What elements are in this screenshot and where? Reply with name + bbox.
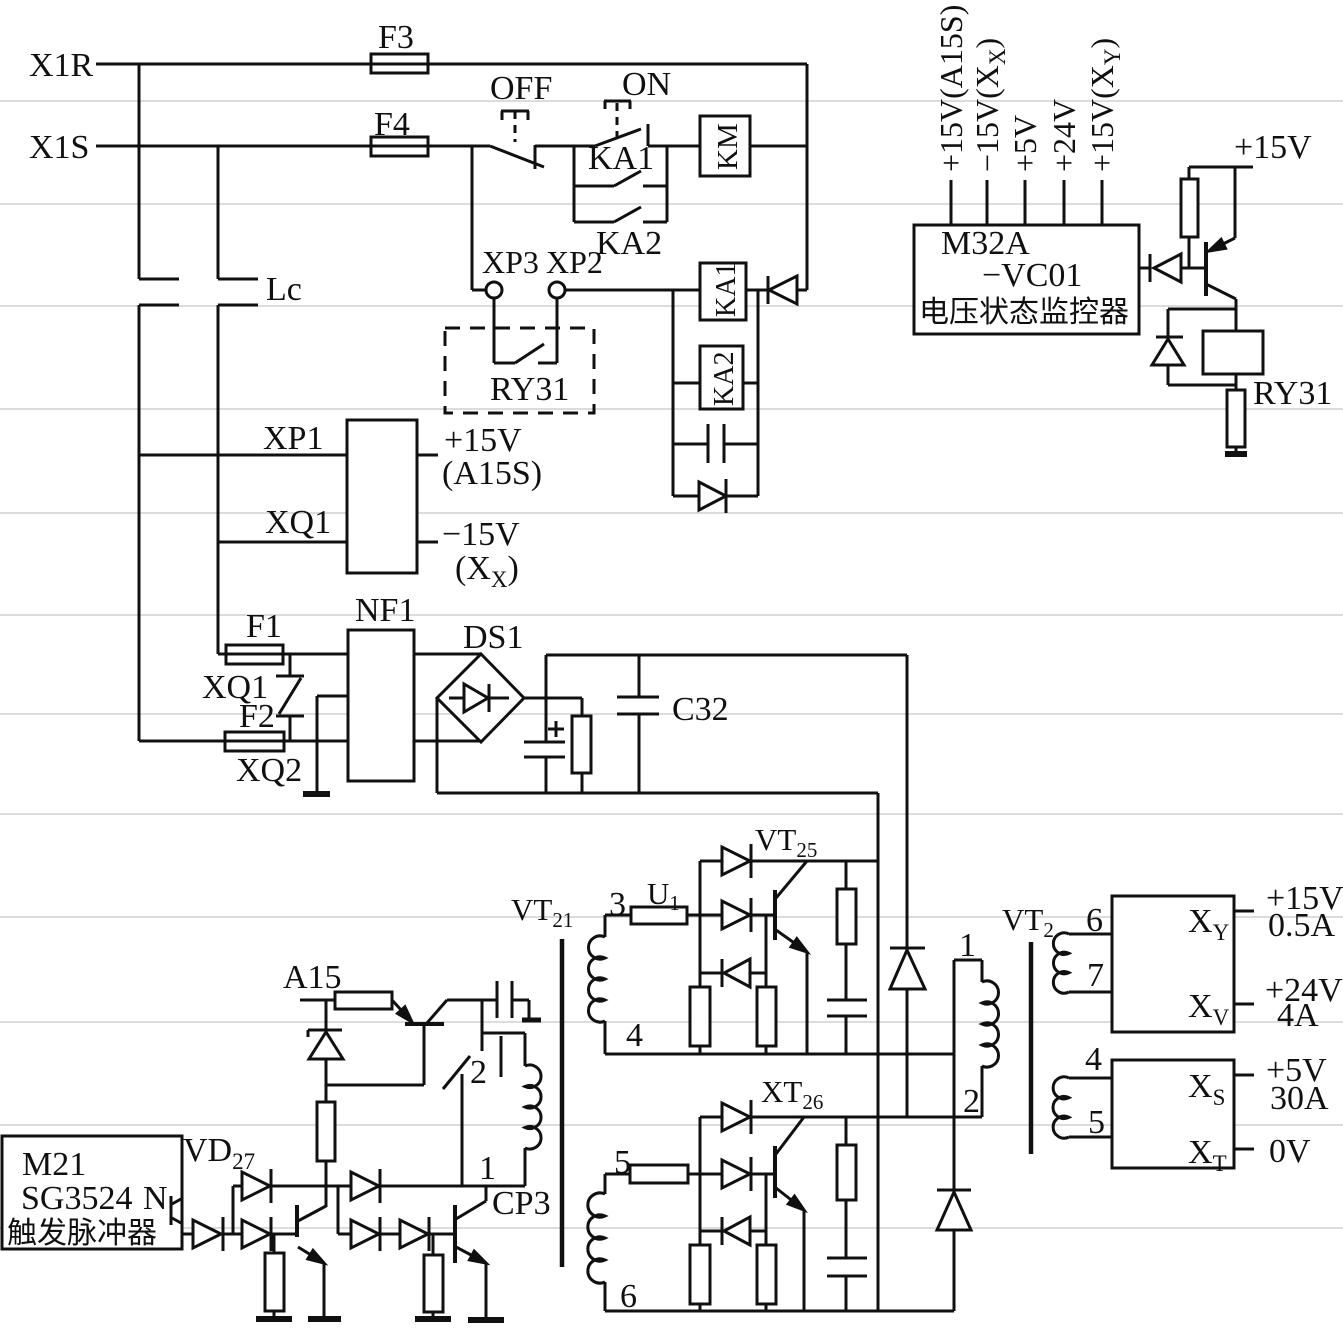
svg-text:F1: F1 xyxy=(246,608,282,645)
svg-text:6: 6 xyxy=(620,1278,637,1315)
svg-text:5: 5 xyxy=(614,1144,631,1181)
svg-text:0V: 0V xyxy=(1269,1133,1311,1170)
svg-text:F2: F2 xyxy=(239,698,275,735)
svg-text:KA2: KA2 xyxy=(709,352,740,406)
svg-text:XP1: XP1 xyxy=(263,420,323,457)
svg-text:0.5A: 0.5A xyxy=(1268,907,1336,944)
svg-text:(XX): (XX) xyxy=(455,550,519,592)
svg-text:+15V: +15V xyxy=(444,422,522,459)
svg-text:Lc: Lc xyxy=(266,271,302,308)
svg-text:1: 1 xyxy=(959,927,976,964)
svg-text:C32: C32 xyxy=(672,691,729,728)
svg-text:1: 1 xyxy=(479,1150,496,1187)
svg-text:7: 7 xyxy=(1087,957,1104,994)
svg-text:5: 5 xyxy=(1088,1104,1105,1141)
svg-text:+15V: +15V xyxy=(1234,129,1312,166)
svg-text:(A15S): (A15S) xyxy=(442,455,542,492)
svg-text:SG3524: SG3524 xyxy=(21,1180,132,1217)
svg-text:A15: A15 xyxy=(283,959,342,996)
svg-text:2: 2 xyxy=(470,1054,487,1091)
svg-text:RY31: RY31 xyxy=(1253,375,1332,412)
svg-text:+5V: +5V xyxy=(1007,115,1043,172)
svg-text:3: 3 xyxy=(609,886,626,923)
svg-text:4: 4 xyxy=(1085,1041,1102,1078)
svg-text:XQ1: XQ1 xyxy=(265,504,331,541)
svg-text:KA1: KA1 xyxy=(711,263,742,317)
svg-text:4: 4 xyxy=(626,1017,643,1054)
svg-text:KA1: KA1 xyxy=(588,140,654,177)
svg-text:RY31: RY31 xyxy=(490,371,569,408)
svg-text:+15V(A15S): +15V(A15S) xyxy=(933,5,969,172)
svg-text:KA2: KA2 xyxy=(596,225,662,262)
svg-text:触发脉冲器: 触发脉冲器 xyxy=(7,1217,157,1250)
svg-text:−15V: −15V xyxy=(442,516,520,553)
svg-text:M21: M21 xyxy=(22,1146,86,1183)
svg-text:OFF: OFF xyxy=(490,70,552,107)
svg-text:F3: F3 xyxy=(378,19,414,56)
svg-text:CP3: CP3 xyxy=(492,1185,551,1222)
svg-text:2: 2 xyxy=(963,1083,980,1120)
svg-text:−VC01: −VC01 xyxy=(982,257,1082,294)
svg-text:N: N xyxy=(143,1180,168,1217)
svg-text:6: 6 xyxy=(1086,902,1103,939)
svg-text:NF1: NF1 xyxy=(355,592,415,629)
svg-text:F4: F4 xyxy=(374,106,410,143)
svg-text:4A: 4A xyxy=(1277,997,1319,1034)
svg-text:X1S: X1S xyxy=(29,129,89,166)
svg-text:XP2: XP2 xyxy=(546,244,603,280)
svg-text:电压状态监控器: 电压状态监控器 xyxy=(919,296,1129,329)
svg-text:DS1: DS1 xyxy=(463,619,523,656)
svg-text:KM: KM xyxy=(712,123,744,170)
svg-text:+24V: +24V xyxy=(1046,99,1082,172)
svg-text:X1R: X1R xyxy=(29,47,94,84)
svg-text:XQ2: XQ2 xyxy=(236,752,302,789)
svg-text:XP3: XP3 xyxy=(482,244,539,280)
svg-text:30A: 30A xyxy=(1270,1080,1329,1117)
svg-text:ON: ON xyxy=(622,66,671,103)
